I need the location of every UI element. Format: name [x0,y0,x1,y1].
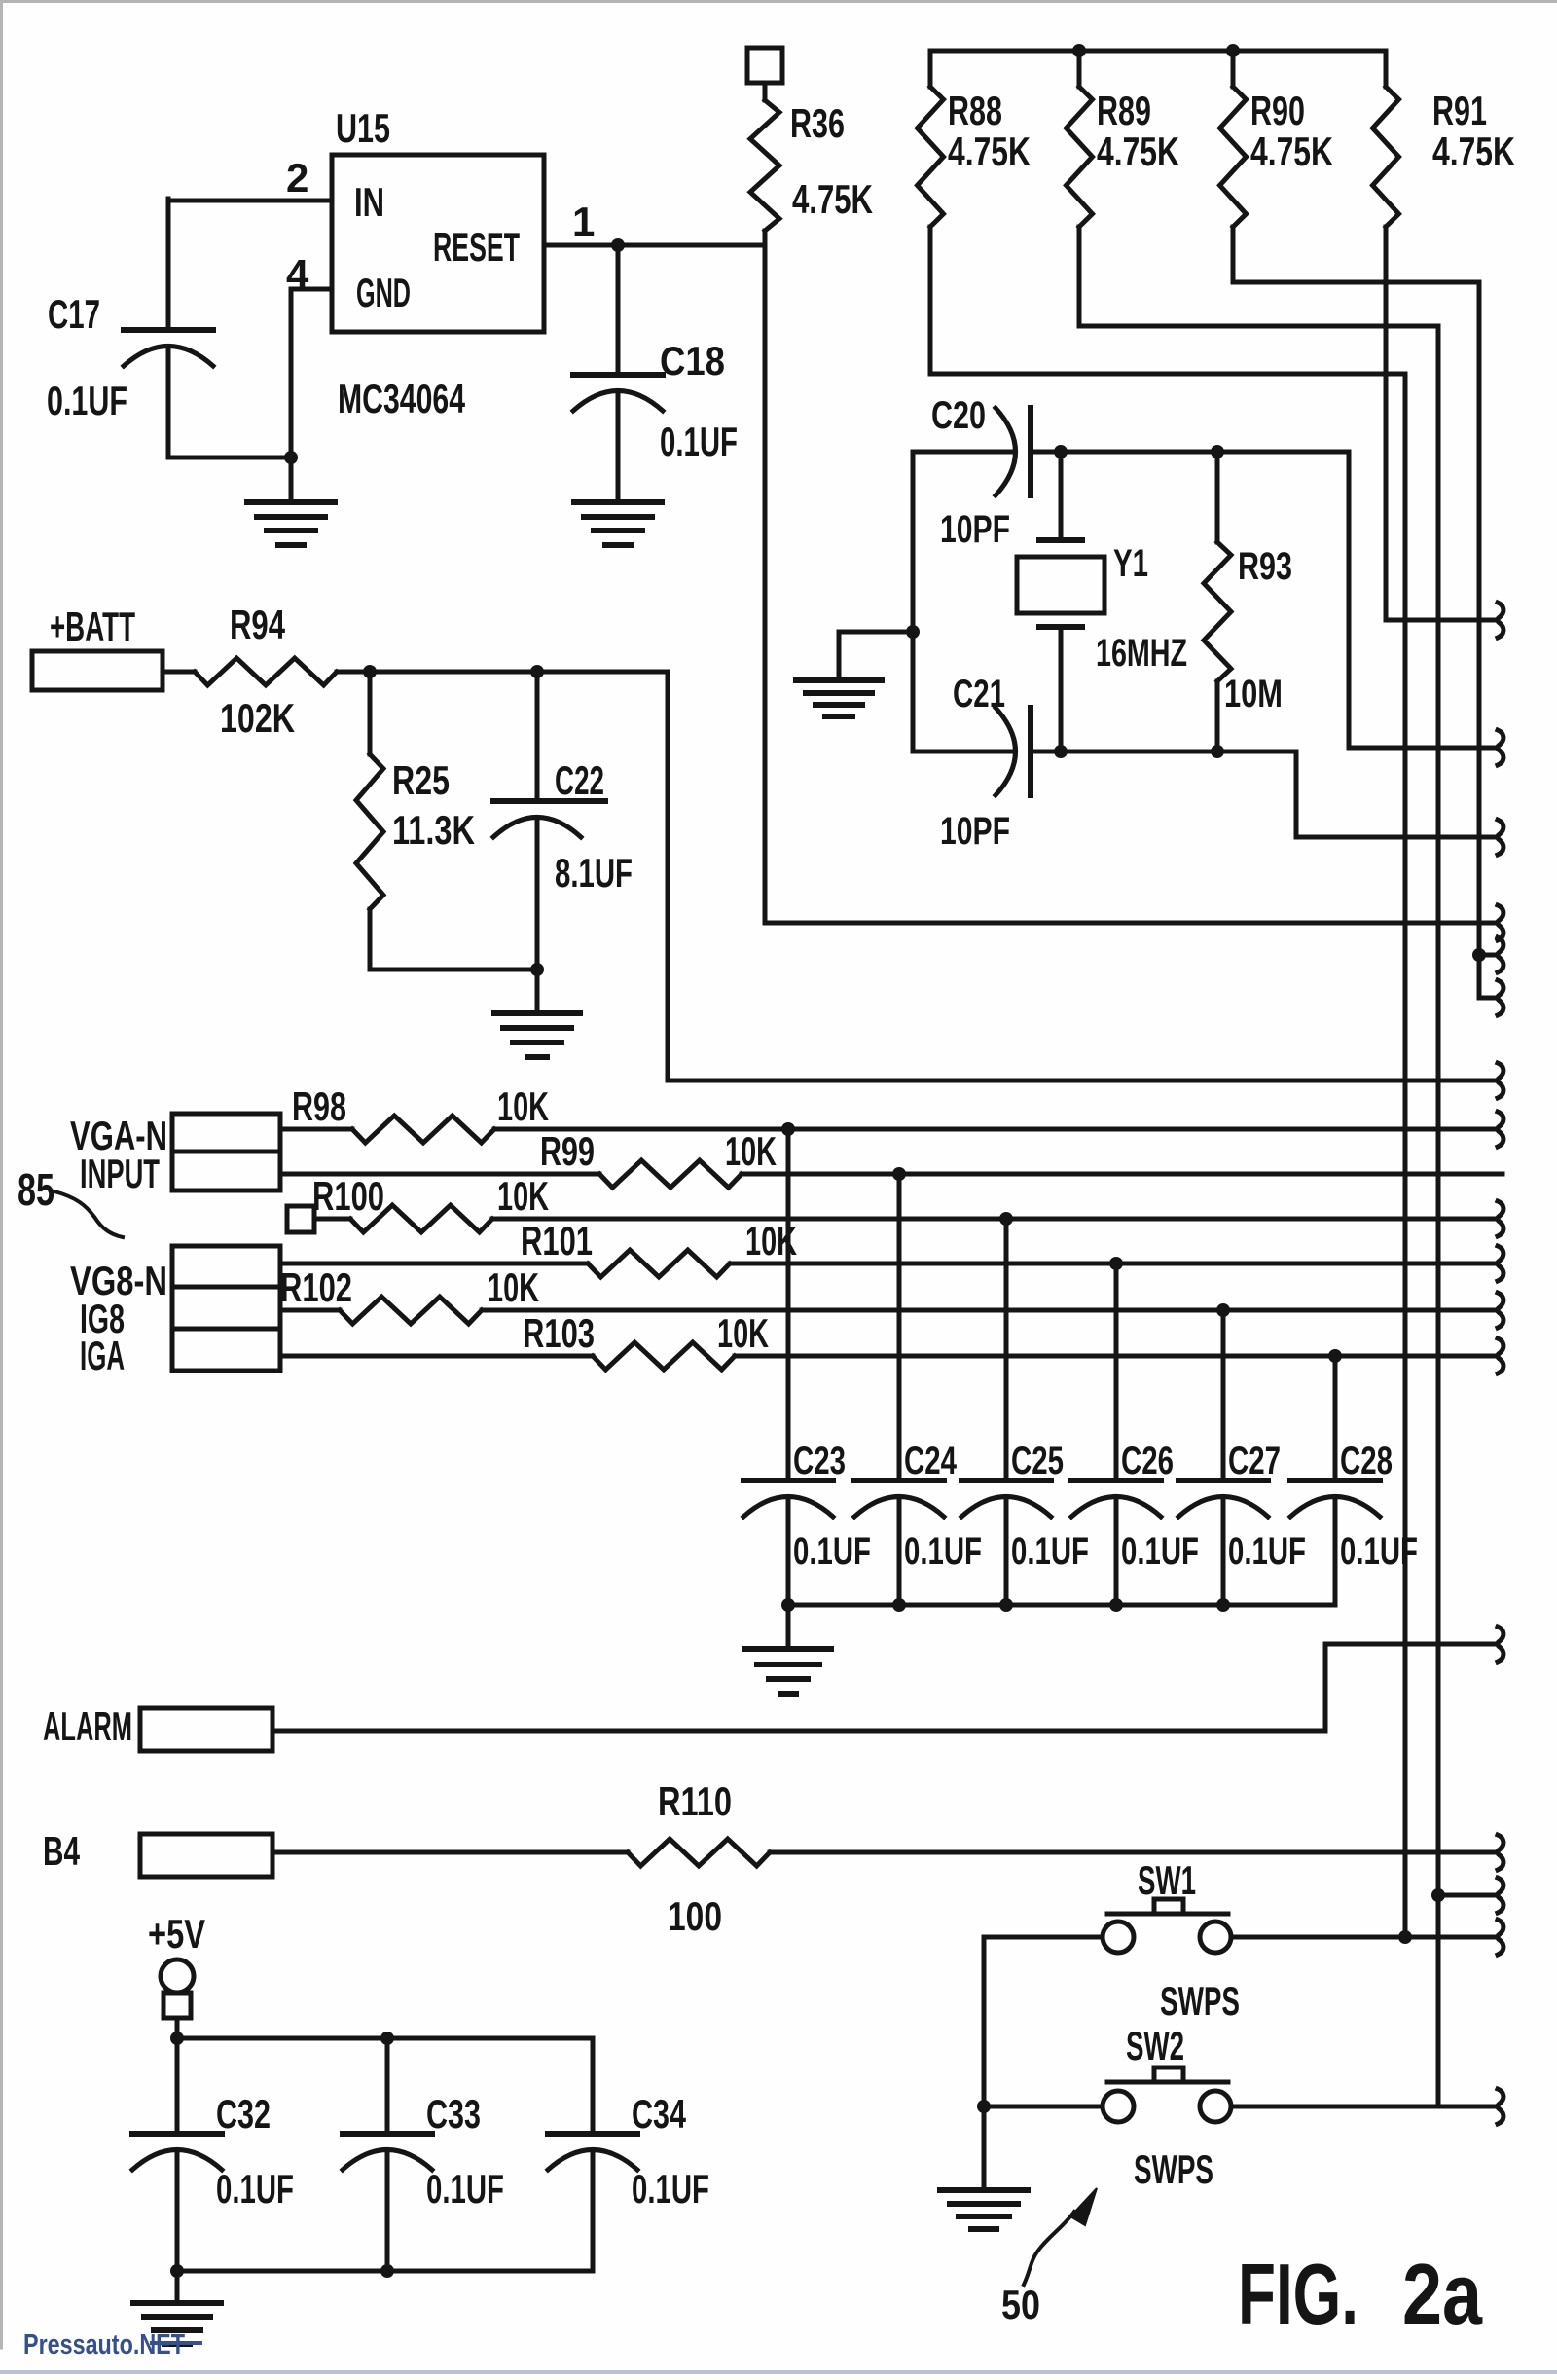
wire SW ground stem [982,2106,987,2188]
svg-text:16MHZ: 16MHZ [1096,632,1187,675]
wire SW1-SW2 left vertical [982,1937,987,2106]
junction R102 / cap [1216,1303,1230,1317]
wire C18 bottom lead [616,391,621,500]
svg-text:10K: 10K [725,1128,777,1174]
off-page stub R89 branch [1498,1878,1503,1913]
crystal Y1 top plate [1039,537,1082,543]
wire C25 bottom lead [1004,1497,1009,1605]
svg-text:10M: 10M [1224,673,1283,715]
ground C22 [494,1010,580,1016]
svg-text:R36: R36 [790,100,845,146]
svg-text:10K: 10K [497,1083,549,1129]
junction R94/R25 [363,665,377,678]
capacitor C33 [343,2131,432,2137]
resistor R101 [280,1262,588,1266]
page border bottom edge [0,2370,1557,2374]
svg-text:MC34064: MC34064 [338,376,465,421]
connector box VG8-N IG8 IGA [172,1246,280,1371]
wire C17 ground stem [289,458,294,500]
capacitor C24 [854,1478,944,1483]
resistor R93 [1215,452,1220,542]
terminal square R100 [287,1206,314,1232]
capacitor C23 [743,1478,833,1483]
svg-text:11.3K: 11.3K [392,807,475,853]
wire R102 row [482,1308,1497,1313]
svg-text:R93: R93 [1238,545,1292,588]
wire C28 bottom lead [1333,1497,1338,1605]
IC U15 MC34064 box [332,155,544,332]
junction R89 branch [1431,1888,1445,1902]
svg-text:R90: R90 [1250,88,1305,133]
wire R90 stub A [1479,953,1497,958]
svg-text:R110: R110 [658,1778,732,1824]
svg-text:4.75K: 4.75K [792,176,873,222]
svg-text:10K: 10K [717,1310,769,1356]
page border top edge [0,0,1557,3]
off-page stub R101 row [1498,1246,1503,1281]
resistor R36 [763,83,768,100]
off-page stub R103 row [1498,1338,1503,1373]
leader arrow 50 [1024,2212,1074,2285]
crystal Y1 body [1017,557,1104,613]
wire C23-C28 ground bus [788,1603,1335,1608]
terminal B4 box [140,1834,272,1877]
svg-text:100: 100 [668,1893,722,1939]
svg-text:R25: R25 [392,757,450,803]
capacitor C17 [124,327,213,333]
svg-text:R94: R94 [230,602,285,647]
wire SW1 right [1231,1935,1497,1940]
wire R101 row [730,1262,1497,1266]
capacitor C22 [493,798,581,804]
ground C18 [574,499,662,505]
off-page stub SW2 row [1498,2089,1503,2124]
wire crystal bottom to edge [1296,751,1497,837]
svg-text:C34: C34 [632,2091,686,2137]
wire R89 bottom [1079,227,1438,326]
svg-text:INPUT: INPUT [80,1151,160,1196]
junction R90 stub A [1472,948,1486,962]
wire C33 top lead [385,2038,390,2134]
svg-text:SWPS: SWPS [1134,2146,1213,2192]
svg-text:R103: R103 [523,1310,595,1356]
off-page stub crystal bottom [1498,820,1503,855]
wire R90 bottom [1233,227,1479,282]
junction R101 / cap [1109,1257,1123,1270]
svg-text:4.75K: 4.75K [1097,128,1179,174]
wire C34 top lead [591,2038,596,2134]
wire C20 right lead to node [1031,450,1349,455]
ground SW [940,2187,1028,2193]
wire C26 top lead [1114,1263,1119,1481]
junction bus R90 [1226,44,1240,57]
wire R25 bottom to C22 [370,968,537,972]
svg-text:IN: IN [354,179,384,225]
svg-text:0.1UF: 0.1UF [660,419,738,464]
junction R98 / cap [781,1122,795,1136]
junction SW1/R88 drop [1398,1930,1412,1944]
wire R98 row [494,1127,1497,1132]
svg-text:R98: R98 [292,1083,346,1129]
off-page stub +BATT row [1498,1063,1503,1098]
wire C22 ground stem [535,970,540,1011]
junction C20/Y1 [1054,445,1068,458]
capacitor C20 [996,408,1016,495]
svg-text:+5V: +5V [148,1911,205,1957]
svg-text:C20: C20 [931,394,986,437]
svg-text:C21: C21 [953,673,1005,715]
junction ground bus [892,1598,906,1612]
svg-text:0.1UF: 0.1UF [904,1530,982,1573]
svg-text:R88: R88 [948,88,1002,133]
wire ground bus stem [786,1605,791,1647]
off-page stub SW1 row [1498,1920,1503,1955]
svg-text:C18: C18 [660,338,725,384]
wire C27 top lead [1221,1310,1226,1481]
svg-text:SW2: SW2 [1126,2023,1184,2069]
terminal +BATT box [32,651,163,690]
wire C34 bottom lead [591,2150,596,2271]
resistor R110 [272,1850,628,1855]
wire pin1 RESET output [544,243,765,248]
crystal Y1 bottom lead [1059,627,1064,751]
wire C17 bottom lead [166,347,171,458]
resistor R91 [1384,51,1389,87]
capacitor C27 [1178,1478,1268,1483]
svg-text:R102: R102 [280,1264,352,1310]
capacitor C21 [996,708,1016,795]
wire +BATT drop [668,672,1497,1080]
svg-text:C17: C17 [48,291,100,337]
page border left edge [0,0,3,2348]
capacitor C25 [961,1478,1051,1483]
switch SW2 [1103,2091,1134,2122]
off-page stub ALARM [1498,1627,1503,1662]
wire pin2 IN [168,199,332,203]
wire crystal bottom rail [913,750,1012,754]
resistor R98 [280,1127,352,1132]
wire C28 top lead [1333,1356,1338,1481]
svg-text:U15: U15 [336,105,390,151]
wire C20 left lead [913,450,1012,455]
junction C22 top [530,665,544,678]
wire R89 branch to edge [1438,1893,1497,1898]
junction ground bus [781,1598,795,1612]
svg-text:B4: B4 [43,1828,80,1874]
svg-text:0.1UF: 0.1UF [216,2166,294,2212]
wire ground stem C32 [175,2271,180,2301]
wire +5V bus [177,2036,593,2041]
wire C33 bottom lead [385,2150,390,2271]
wire R90 vertical drop [1477,282,1482,998]
svg-text:102K: 102K [220,695,295,741]
capacitor C28 [1290,1478,1380,1483]
junction ground bus [1109,1598,1123,1612]
connector box VGA-N INPUT [172,1114,280,1190]
wire top supply bus [930,49,1386,54]
svg-text:C24: C24 [904,1440,958,1483]
wire pin4 GND [291,287,332,292]
junction ground bus [1216,1598,1230,1612]
off-page stub R90 B [1498,980,1503,1015]
ground C23 bus [745,1646,831,1652]
resistor R90 [1231,51,1236,87]
svg-text:0.1UF: 0.1UF [632,2166,709,2212]
wire R89 vertical drop [1436,326,1441,2106]
ground U15/C17 [247,499,335,505]
resistor R100 [314,1217,350,1222]
svg-text:C33: C33 [426,2091,481,2137]
terminal square R36 top [747,48,782,83]
wire R103 row [735,1354,1497,1359]
wire C32 bottom lead [175,2150,180,2271]
svg-text:R91: R91 [1432,88,1487,133]
ground crystal [796,677,882,683]
resistor R103 [280,1354,593,1359]
wire R91 bottom [1384,227,1389,620]
svg-text:0.1UF: 0.1UF [1340,1530,1418,1573]
crystal Y1 top lead [1059,452,1064,540]
resistor R25 [368,672,373,754]
svg-text:0.1UF: 0.1UF [47,378,127,423]
wire SW2 right [1231,2105,1497,2109]
svg-text:ALARM: ALARM [43,1703,132,1749]
svg-text:C32: C32 [216,2091,271,2137]
junction C20/R93 [1211,445,1224,458]
junction C33 bottom [380,2264,394,2278]
svg-text:2a: 2a [1402,2246,1483,2342]
svg-text:10K: 10K [497,1173,549,1219]
wire ground branch [839,632,913,678]
wire C17 top lead [166,199,171,330]
wire C18 top lead [616,245,621,375]
svg-text:50: 50 [1001,2282,1040,2327]
junction R93 bottom [1211,745,1224,758]
junction ground bus [999,1598,1013,1612]
svg-text:0.1UF: 0.1UF [793,1530,871,1573]
svg-text:2: 2 [286,155,308,201]
svg-text:+BATT: +BATT [50,604,135,649]
wire C23 bottom lead [786,1497,791,1605]
svg-text:SW1: SW1 [1138,1857,1196,1903]
svg-text:C23: C23 [793,1440,846,1483]
wire R91 to edge [1386,618,1497,623]
junction pin1/C18 [611,238,625,252]
wire C24 bottom lead [897,1497,902,1605]
wire R90 stub B [1479,996,1497,1001]
off-page stub R98 row [1498,1112,1503,1147]
svg-text:SWPS: SWPS [1160,1978,1240,2024]
resistor R88 [928,51,933,87]
svg-text:10PF: 10PF [940,810,1010,853]
wire C17 to ground node [168,456,291,460]
wire C32-C34 bottom bus [177,2269,593,2274]
junction pin4/C17/ground [284,451,298,464]
svg-text:C28: C28 [1340,1440,1393,1483]
svg-text:FIG.: FIG. [1238,2246,1358,2342]
svg-text:10PF: 10PF [940,508,1010,551]
junction SW2 left [977,2100,991,2113]
junction bus R89 [1072,44,1086,57]
capacitor C32 [132,2131,222,2137]
wire R36 bottom long vertical [763,231,768,923]
junction Y1 bottom [1054,745,1068,758]
svg-text:GND: GND [356,270,411,315]
wire R88 bottom [930,227,1405,374]
capacitor C26 [1071,1478,1161,1483]
junction R103 / cap [1328,1349,1342,1363]
off-page stub B4 row [1498,1835,1503,1870]
svg-text:RESET: RESET [433,224,520,270]
svg-text:C27: C27 [1228,1440,1281,1483]
wire C22 top lead [535,672,540,801]
svg-text:4.75K: 4.75K [1250,128,1333,174]
svg-text:0.1UF: 0.1UF [1121,1530,1199,1573]
capacitor C18 [573,372,663,378]
svg-text:C25: C25 [1011,1440,1064,1483]
off-page stub R91 [1498,603,1503,638]
wire C32 top lead [175,2038,180,2134]
crystal Y1 bottom plate [1039,624,1082,630]
svg-text:0.1UF: 0.1UF [426,2166,504,2212]
wire pin4 vertical [289,289,294,458]
svg-text:IGA: IGA [80,1333,125,1378]
wire R36 row to right edge [765,921,1497,926]
resistor R99 [280,1172,599,1177]
resistor R102 [280,1308,340,1313]
off-page stub R102 row [1498,1293,1503,1328]
wire R88 vertical drop [1403,374,1408,1937]
svg-text:C26: C26 [1121,1440,1174,1483]
wire C26 bottom lead [1114,1497,1119,1605]
svg-text:8.1UF: 8.1UF [555,850,633,896]
svg-text:R99: R99 [540,1128,595,1174]
svg-text:4.75K: 4.75K [1432,128,1515,174]
junction C32 bottom [170,2264,184,2278]
svg-text:R100: R100 [312,1173,384,1219]
wire SW1 left [984,1935,1103,1940]
svg-text:R101: R101 [521,1218,593,1263]
wire SW2 left [984,2105,1103,2109]
svg-text:1: 1 [572,199,595,244]
wire C22 bottom lead [535,818,540,970]
svg-text:4.75K: 4.75K [948,128,1031,174]
wire C25 top lead [1004,1219,1009,1481]
off-page stub R90 A [1498,937,1503,972]
wire C24 top lead [897,1174,902,1481]
off-page stub R100 row [1498,1201,1503,1236]
svg-text:R89: R89 [1097,88,1151,133]
svg-text:Y1: Y1 [1113,542,1148,585]
junction C33 top [380,2032,394,2045]
wire R94 to corner [337,670,668,675]
watermark strike line [152,2341,200,2345]
svg-text:0.1UF: 0.1UF [1228,1530,1306,1573]
wire ALARM row [272,1644,1497,1731]
switch SW1 [1103,1922,1134,1953]
junction R99 / cap [892,1167,906,1181]
svg-text:85: 85 [18,1164,54,1215]
resistor R94 [163,670,195,675]
wire crystal left vertical [911,452,916,751]
junction crystal ground branch [906,625,920,639]
off-page stub crystal top [1498,730,1503,765]
wire +5V stem [175,2018,180,2038]
resistor R89 [1077,51,1082,87]
wire C21 right lead [1031,750,1296,754]
svg-text:0.1UF: 0.1UF [1011,1530,1089,1573]
ground C32 bus [133,2300,221,2306]
leader line 85 [54,1191,123,1237]
off-page stub R36 row [1498,905,1503,940]
wire R100 row [492,1217,1497,1222]
wire crystal top to edge [1349,452,1497,748]
terminal ALARM box [140,1708,272,1751]
wire C27 bottom lead [1221,1497,1226,1605]
junction C22 bottom [530,963,544,976]
svg-text:C22: C22 [555,757,604,803]
junction R100 / cap [999,1212,1013,1226]
wire R99 row [742,1172,1503,1177]
capacitor C34 [548,2131,637,2137]
junction +5V bus [170,2032,184,2045]
svg-text:10K: 10K [488,1264,539,1310]
wire C23 top lead [786,1129,791,1481]
